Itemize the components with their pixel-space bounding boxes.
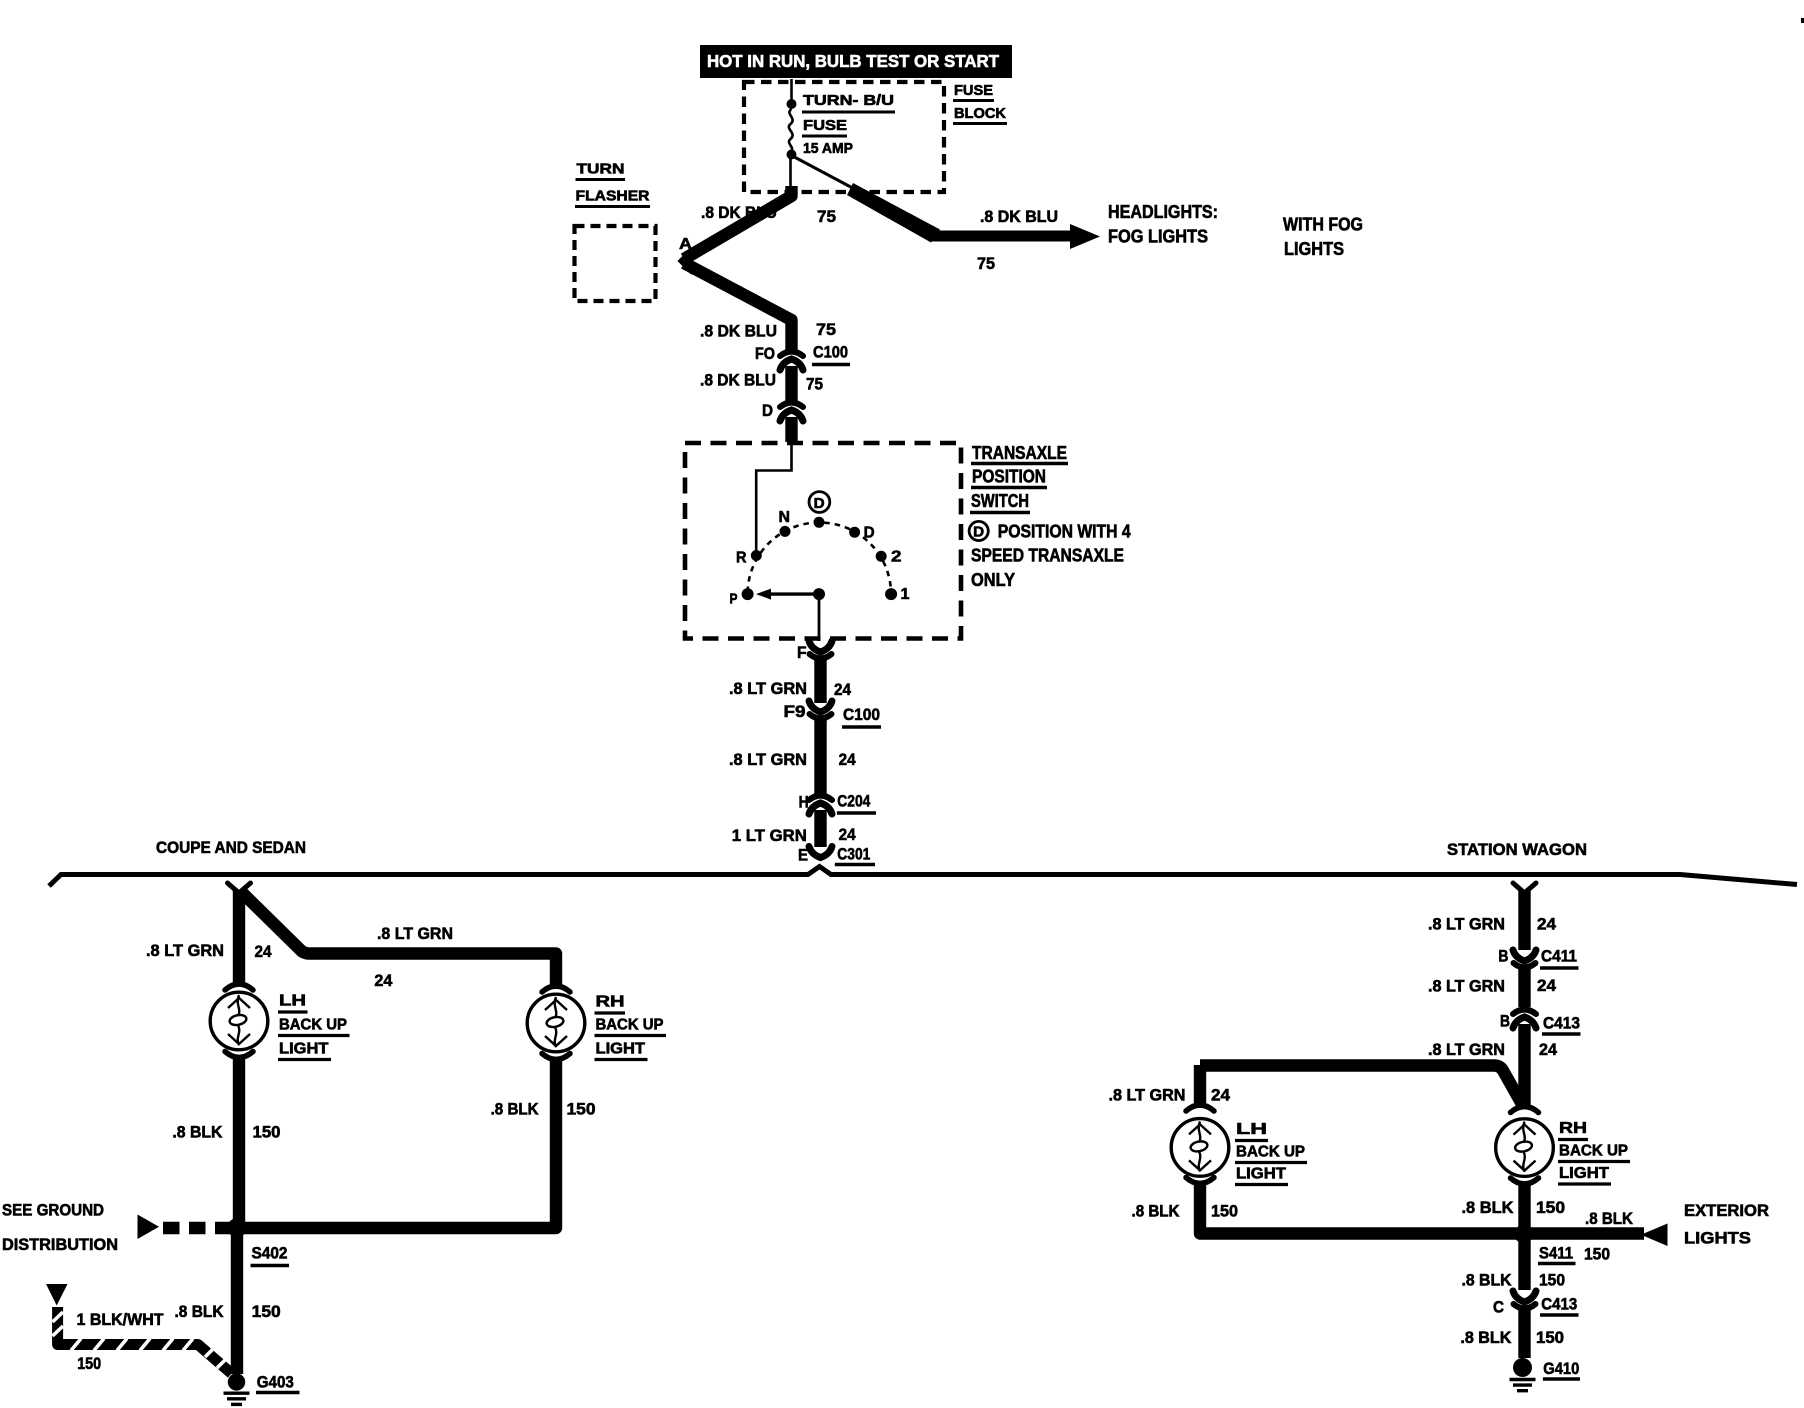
svg-text:SPEED TRANSAXLE: SPEED TRANSAXLE bbox=[971, 546, 1124, 566]
svg-text:B: B bbox=[1500, 1012, 1510, 1031]
svg-text:C: C bbox=[1493, 1298, 1504, 1317]
svg-text:24: 24 bbox=[839, 825, 856, 844]
RH back up light (coupe/sedan) bbox=[542, 986, 570, 992]
svg-text:HOT IN RUN, BULB TEST OR START: HOT IN RUN, BULB TEST OR START bbox=[707, 51, 999, 71]
svg-text:150: 150 bbox=[253, 1123, 281, 1142]
connector C100 pin F9 bbox=[809, 701, 832, 712]
svg-text:FOG LIGHTS: FOG LIGHTS bbox=[1108, 227, 1208, 247]
wire: thin diagonal from fuse to headlight feed bbox=[793, 156, 863, 193]
svg-text:D: D bbox=[864, 525, 875, 542]
contact 2 bbox=[876, 551, 887, 562]
svg-text:75: 75 bbox=[806, 375, 823, 394]
svg-text:75: 75 bbox=[977, 254, 995, 273]
svg-text:ONLY: ONLY bbox=[971, 570, 1015, 590]
svg-text:150: 150 bbox=[252, 1302, 281, 1321]
svg-text:LIGHT: LIGHT bbox=[1559, 1165, 1609, 1182]
svg-text:150: 150 bbox=[567, 1100, 596, 1119]
svg-text:.8 LT GRN: .8 LT GRN bbox=[729, 679, 807, 698]
arrow from ground distribution (see ground distribution) bbox=[138, 1215, 160, 1240]
fuse TURN-B/U 15 AMP (wavy symbol) bbox=[789, 109, 793, 151]
wire node A down to C100 (.8 DK BLU 75) bbox=[684, 263, 792, 350]
svg-text:2: 2 bbox=[891, 549, 902, 566]
wire from banner into fuse bbox=[790, 79, 793, 101]
power feed banner: HOT IN RUN, BULB TEST OR START bbox=[700, 45, 1012, 78]
wire: coupe branch from bus (crowfoot terminal) bbox=[228, 883, 251, 893]
turn flasher dashed box bbox=[575, 226, 656, 301]
node: fuse top junction dot bbox=[787, 99, 797, 109]
wire: switch feed to R contact (thin) bbox=[756, 443, 791, 552]
svg-text:S411: S411 bbox=[1539, 1244, 1573, 1263]
svg-text:BACK UP: BACK UP bbox=[279, 1017, 347, 1034]
svg-text:150: 150 bbox=[1539, 1271, 1565, 1290]
wire wagon RH lamp to S411 (.8 BLK 150) bbox=[1518, 1184, 1530, 1228]
svg-text:24: 24 bbox=[1539, 1040, 1558, 1059]
svg-text:TURN- B/U: TURN- B/U bbox=[803, 93, 894, 109]
svg-text:C301: C301 bbox=[837, 845, 870, 864]
wire S411 to C413 (.8 BLK 150) bbox=[1518, 1240, 1530, 1290]
wire C413 down to RH back up light (.8 LT GRN 24) bbox=[1518, 1024, 1530, 1105]
svg-text:75: 75 bbox=[817, 207, 836, 226]
svg-text:FLASHER: FLASHER bbox=[576, 189, 651, 205]
svg-text:F: F bbox=[797, 643, 807, 662]
svg-text:150: 150 bbox=[1536, 1198, 1565, 1217]
svg-text:.8 DK BLU: .8 DK BLU bbox=[701, 203, 777, 222]
transaxle position switch dashed box bbox=[685, 443, 961, 639]
ground G403 bbox=[228, 1373, 245, 1390]
LH back up light (coupe/sedan) bbox=[225, 984, 253, 990]
svg-text:RH: RH bbox=[1559, 1120, 1587, 1137]
wire C204 to C301 (1 LT GRN 24) bbox=[814, 810, 826, 847]
wire: wagon branch from bus (crowfoot terminal) bbox=[1513, 883, 1536, 893]
svg-text:R: R bbox=[736, 550, 747, 567]
svg-text:POSITION: POSITION bbox=[972, 467, 1046, 487]
svg-text:LIGHTS: LIGHTS bbox=[1284, 239, 1344, 259]
svg-text:150: 150 bbox=[77, 1354, 101, 1373]
contact 1 bbox=[885, 588, 897, 600]
svg-text:.8 DK BLU: .8 DK BLU bbox=[700, 322, 777, 341]
svg-text:LIGHT: LIGHT bbox=[596, 1041, 646, 1058]
svg-text:H: H bbox=[799, 793, 809, 812]
svg-text:75: 75 bbox=[816, 320, 836, 339]
switch rotor arc (dashed) bbox=[748, 522, 891, 592]
svg-text:.8 DK BLU: .8 DK BLU bbox=[980, 207, 1058, 226]
speck (scan artifact) top right bbox=[1801, 18, 1804, 23]
node A terminal at turn flasher bbox=[681, 250, 692, 272]
fuse block dashed box bbox=[744, 82, 944, 192]
svg-text:BACK UP: BACK UP bbox=[1559, 1143, 1628, 1160]
svg-text:.8 BLK: .8 BLK bbox=[175, 1302, 225, 1321]
svg-text:15 AMP: 15 AMP bbox=[803, 141, 853, 157]
rotor wiper arm with arrow to P bbox=[762, 592, 819, 595]
svg-text:24: 24 bbox=[374, 971, 393, 990]
svg-text:FO: FO bbox=[755, 344, 775, 363]
svg-text:.8 BLK: .8 BLK bbox=[491, 1100, 540, 1119]
connector C204 pin H bbox=[809, 796, 832, 801]
svg-text:C100: C100 bbox=[813, 343, 848, 362]
svg-text:C100: C100 bbox=[843, 705, 880, 724]
svg-text:.8 BLK: .8 BLK bbox=[1462, 1198, 1515, 1217]
svg-text:SEE GROUND: SEE GROUND bbox=[2, 1201, 104, 1220]
svg-text:1 BLK/WHT: 1 BLK/WHT bbox=[77, 1310, 165, 1329]
wire S402 to G403 (.8 BLK 150) bbox=[231, 1234, 243, 1374]
svg-text:24: 24 bbox=[1211, 1086, 1231, 1105]
wire LH lamp to S402 (.8 BLK 150) bbox=[233, 1058, 245, 1223]
svg-text:G403: G403 bbox=[257, 1373, 294, 1392]
svg-text:.8 BLK: .8 BLK bbox=[1132, 1202, 1181, 1221]
svg-text:24: 24 bbox=[1537, 915, 1557, 934]
svg-text:.8 BLK: .8 BLK bbox=[1462, 1271, 1513, 1290]
connector C413 pin C (ground side) bbox=[1513, 1291, 1536, 1302]
node: fuse bottom dot bbox=[787, 150, 797, 160]
wire C413 to G410 (.8 BLK 150) bbox=[1518, 1309, 1530, 1358]
svg-text:FUSE: FUSE bbox=[803, 118, 847, 134]
splice S402 bbox=[227, 1218, 246, 1237]
wire S411 to exterior lights (.8 BLK 150) bbox=[1530, 1227, 1644, 1239]
svg-text:.8 LT GRN: .8 LT GRN bbox=[146, 941, 224, 960]
svg-text:150: 150 bbox=[1584, 1245, 1610, 1264]
svg-text:G410: G410 bbox=[1543, 1359, 1579, 1378]
contact OD (circled D) bbox=[814, 517, 825, 528]
connector C100 pin F0 (upper) bbox=[780, 352, 803, 357]
note: circled D position with 4 speed transaxle only bbox=[969, 521, 988, 540]
RH back up light (wagon) bbox=[1511, 1107, 1539, 1113]
svg-text:F9: F9 bbox=[784, 702, 806, 721]
svg-text:150: 150 bbox=[1536, 1328, 1564, 1347]
svg-text:LH: LH bbox=[279, 993, 306, 1010]
contact P bbox=[742, 588, 754, 600]
svg-text:24: 24 bbox=[839, 750, 856, 769]
wire fuse bottom dot to box bottom bbox=[789, 158, 792, 190]
svg-text:.8 BLK: .8 BLK bbox=[1460, 1328, 1512, 1347]
wire wagon LH lamp down and across to S411 (.8 BLK 150) bbox=[1200, 1184, 1517, 1234]
svg-text:TRANSAXLE: TRANSAXLE bbox=[972, 443, 1067, 463]
svg-text:24: 24 bbox=[255, 942, 272, 961]
connector pin F (switch output) bbox=[809, 641, 832, 652]
wire rotor to switch output (thin) bbox=[818, 594, 821, 641]
LH back up light (wagon) bbox=[1186, 1105, 1214, 1111]
connector C411 pin B bbox=[1513, 950, 1536, 961]
svg-text:LIGHTS: LIGHTS bbox=[1684, 1229, 1751, 1248]
svg-text:EXTERIOR: EXTERIOR bbox=[1684, 1201, 1769, 1220]
svg-text:150: 150 bbox=[1211, 1202, 1238, 1221]
svg-text:BACK UP: BACK UP bbox=[596, 1017, 664, 1034]
svg-text:COUPE AND SEDAN: COUPE AND SEDAN bbox=[156, 838, 306, 857]
svg-text:HEADLIGHTS:: HEADLIGHTS: bbox=[1108, 202, 1218, 222]
wire C100 to connector D (.8 DK BLU 75) bbox=[785, 366, 797, 401]
wire F to C100 (.8 LT GRN 24) bbox=[814, 659, 826, 703]
svg-text:24: 24 bbox=[834, 680, 851, 699]
svg-text:.8 LT GRN: .8 LT GRN bbox=[1428, 977, 1505, 996]
svg-text:RH: RH bbox=[596, 994, 625, 1011]
svg-text:TURN: TURN bbox=[577, 162, 625, 178]
wire RH lamp down and across to S402 (.8 BLK 150) bbox=[243, 1060, 556, 1229]
wire C411 to C413 (.8 LT GRN 24) bbox=[1518, 968, 1530, 1007]
svg-text:D: D bbox=[762, 401, 773, 420]
svg-text:N: N bbox=[779, 509, 791, 526]
svg-text:.8 LT GRN: .8 LT GRN bbox=[377, 924, 453, 943]
contact R bbox=[751, 550, 762, 561]
svg-text:LIGHT: LIGHT bbox=[1236, 1166, 1286, 1183]
wire into transaxle switch box bbox=[785, 417, 797, 442]
svg-text:B: B bbox=[1498, 947, 1508, 966]
wire fuse block to node A (.8 DK BLU 75) bbox=[684, 186, 792, 259]
svg-text:.8 LT GRN: .8 LT GRN bbox=[729, 750, 807, 769]
svg-text:POSITION WITH 4: POSITION WITH 4 bbox=[998, 522, 1131, 542]
svg-text:.8 BLK: .8 BLK bbox=[1585, 1209, 1634, 1228]
svg-text:LIGHT: LIGHT bbox=[279, 1041, 329, 1058]
contact D bbox=[849, 527, 860, 538]
contact N bbox=[780, 526, 791, 537]
ground G410 bbox=[1513, 1358, 1532, 1377]
wire C100 to C204 (.8 LT GRN 24) bbox=[814, 719, 826, 794]
svg-text:.8 LT GRN: .8 LT GRN bbox=[1428, 915, 1505, 934]
wire: dashed ground distribution feed bbox=[163, 1222, 231, 1234]
svg-text:E: E bbox=[798, 846, 808, 865]
splice S411 bbox=[1514, 1225, 1533, 1244]
svg-text:1: 1 bbox=[901, 586, 910, 603]
svg-text:LH: LH bbox=[1236, 1121, 1267, 1138]
svg-text:P: P bbox=[730, 591, 738, 608]
wire: diagonal branch to RH back up light (.8 LT GRN 24) bbox=[241, 892, 556, 989]
svg-text:D: D bbox=[973, 524, 984, 541]
svg-text:C411: C411 bbox=[1541, 947, 1577, 966]
svg-text:STATION WAGON: STATION WAGON bbox=[1447, 840, 1587, 859]
rotor pivot dot bbox=[813, 588, 825, 600]
connector C301 pin E bbox=[809, 847, 832, 858]
svg-text:SWITCH: SWITCH bbox=[971, 491, 1029, 511]
wire: branch to wagon LH back up light (.8 LT GRN 24) bbox=[1200, 1066, 1523, 1107]
connector pin D (to transaxle switch) bbox=[780, 403, 803, 408]
svg-text:.8 LT GRN: .8 LT GRN bbox=[1109, 1086, 1186, 1105]
svg-text:BACK UP: BACK UP bbox=[1236, 1144, 1305, 1161]
svg-text:FUSE: FUSE bbox=[954, 83, 993, 99]
wire .8 DK BLU 75 to headlights (arrow right) bbox=[930, 231, 1076, 242]
wire 1 BLK/WHT 150 (striped) to G403 bbox=[58, 1307, 232, 1374]
svg-text:.8 BLK: .8 BLK bbox=[172, 1123, 223, 1142]
svg-text:.8 DK BLU: .8 DK BLU bbox=[700, 371, 776, 390]
wire: distribution bus line with receptacle peak at C301 bbox=[49, 867, 1797, 887]
svg-text:C204: C204 bbox=[837, 792, 870, 811]
off-page connector triangle (to ground distribution) bbox=[46, 1284, 68, 1306]
svg-text:S402: S402 bbox=[252, 1244, 288, 1263]
svg-text:D: D bbox=[814, 495, 825, 512]
svg-text:BLOCK: BLOCK bbox=[954, 106, 1007, 122]
svg-text:C413: C413 bbox=[1541, 1295, 1577, 1314]
svg-text:WITH FOG: WITH FOG bbox=[1283, 215, 1363, 235]
svg-text:24: 24 bbox=[1537, 976, 1557, 995]
svg-text:C413: C413 bbox=[1543, 1014, 1580, 1033]
svg-text:DISTRIBUTION: DISTRIBUTION bbox=[2, 1235, 118, 1254]
svg-text:.8 LT GRN: .8 LT GRN bbox=[1428, 1040, 1505, 1059]
connector C413 pin B bbox=[1513, 1010, 1536, 1015]
svg-text:1 LT GRN: 1 LT GRN bbox=[732, 826, 807, 845]
